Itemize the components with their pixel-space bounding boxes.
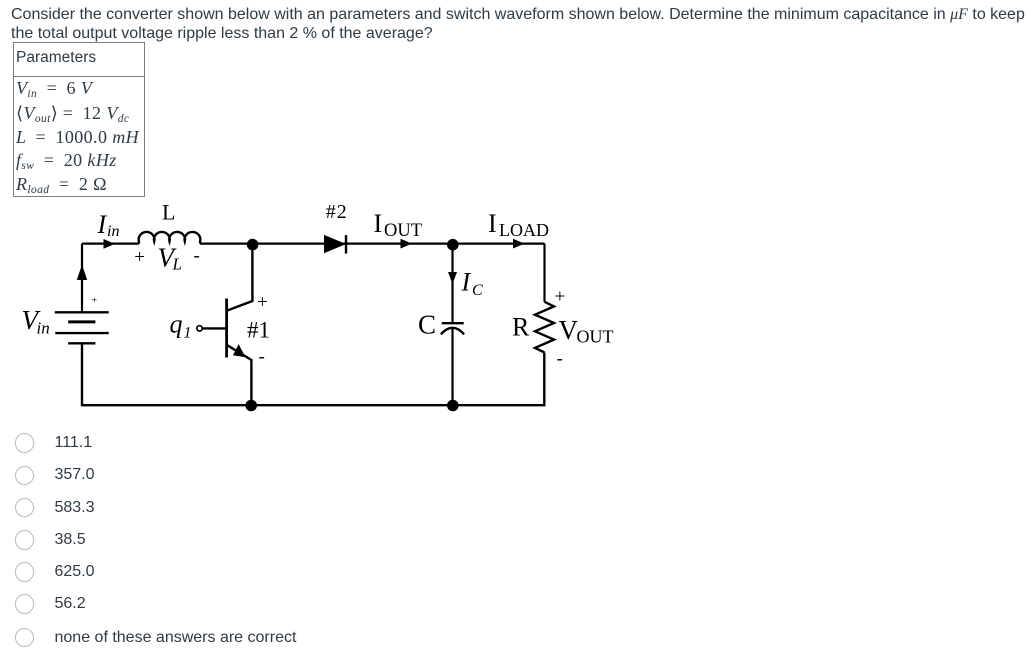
circuit schematic — [0, 195, 660, 425]
svg-text:1: 1 — [184, 325, 192, 342]
svg-text:I: I — [97, 210, 108, 239]
capacitor C top plate — [442, 322, 464, 324]
svg-text:I: I — [461, 267, 472, 296]
inductor L — [139, 232, 201, 244]
battery Vin (source) — [55, 312, 109, 343]
wire right vertical upper — [543, 244, 545, 302]
svg-text:LOAD: LOAD — [499, 220, 549, 240]
svg-text:in: in — [37, 319, 50, 338]
svg-text:R: R — [512, 313, 530, 342]
svg-text:I: I — [374, 209, 383, 238]
svg-text:V: V — [559, 315, 579, 345]
question text — [11, 5, 1028, 43]
wire right vertical lower and bottom rail — [82, 343, 544, 405]
arrow IOUT right — [401, 239, 413, 249]
junction node collector/top rail — [247, 239, 259, 251]
arrow up (input current) — [77, 265, 87, 281]
svg-text:#1: #1 — [247, 318, 270, 343]
svg-text:C: C — [472, 282, 483, 299]
svg-text:+: + — [92, 296, 98, 307]
svg-text:OUT: OUT — [384, 221, 422, 241]
resistor R zigzag — [535, 302, 554, 353]
transistor q1 emitter branch — [227, 345, 252, 405]
transistor q1 base terminal circle — [197, 326, 202, 331]
svg-text:L: L — [162, 200, 175, 225]
junction node cap/bottom rail — [447, 400, 459, 412]
arrow Iin right — [104, 239, 116, 249]
junction node cap/top rail — [447, 239, 459, 251]
wire capacitor branch lower — [451, 328, 453, 405]
transistor q1 base lead — [202, 327, 226, 329]
svg-text:OUT: OUT — [577, 326, 614, 346]
svg-text:in: in — [107, 223, 119, 240]
diode #2 cathode bar — [345, 235, 347, 253]
arrow ILOAD right — [513, 239, 525, 249]
svg-text:I: I — [488, 209, 497, 238]
arrow IC down — [448, 272, 457, 284]
answer options — [15, 433, 35, 453]
svg-text:-: - — [557, 349, 563, 370]
transistor q1 base bar — [225, 299, 228, 358]
svg-text:-: - — [194, 246, 200, 267]
diode #2 triangle — [324, 235, 346, 253]
svg-text:+: + — [555, 287, 566, 308]
svg-text:#2: #2 — [326, 201, 348, 223]
wire top rail mid segment — [200, 243, 544, 245]
transistor q1 emitter arrow — [233, 344, 246, 357]
svg-text:C: C — [418, 310, 436, 340]
svg-text:+: + — [134, 247, 145, 268]
svg-text:q: q — [170, 310, 183, 339]
transistor q1 collector branch — [227, 244, 253, 311]
wire left vertical (battery + to top rail) — [81, 244, 83, 313]
parameters table — [13, 42, 145, 197]
junction node emitter/bottom rail — [245, 400, 257, 412]
svg-text:-: - — [259, 347, 265, 368]
svg-text:+: + — [257, 292, 268, 313]
capacitor C curved plate — [441, 328, 464, 334]
wire capacitor branch upper — [451, 244, 453, 323]
wire top rail left segment — [82, 243, 139, 245]
svg-text:L: L — [172, 255, 182, 274]
